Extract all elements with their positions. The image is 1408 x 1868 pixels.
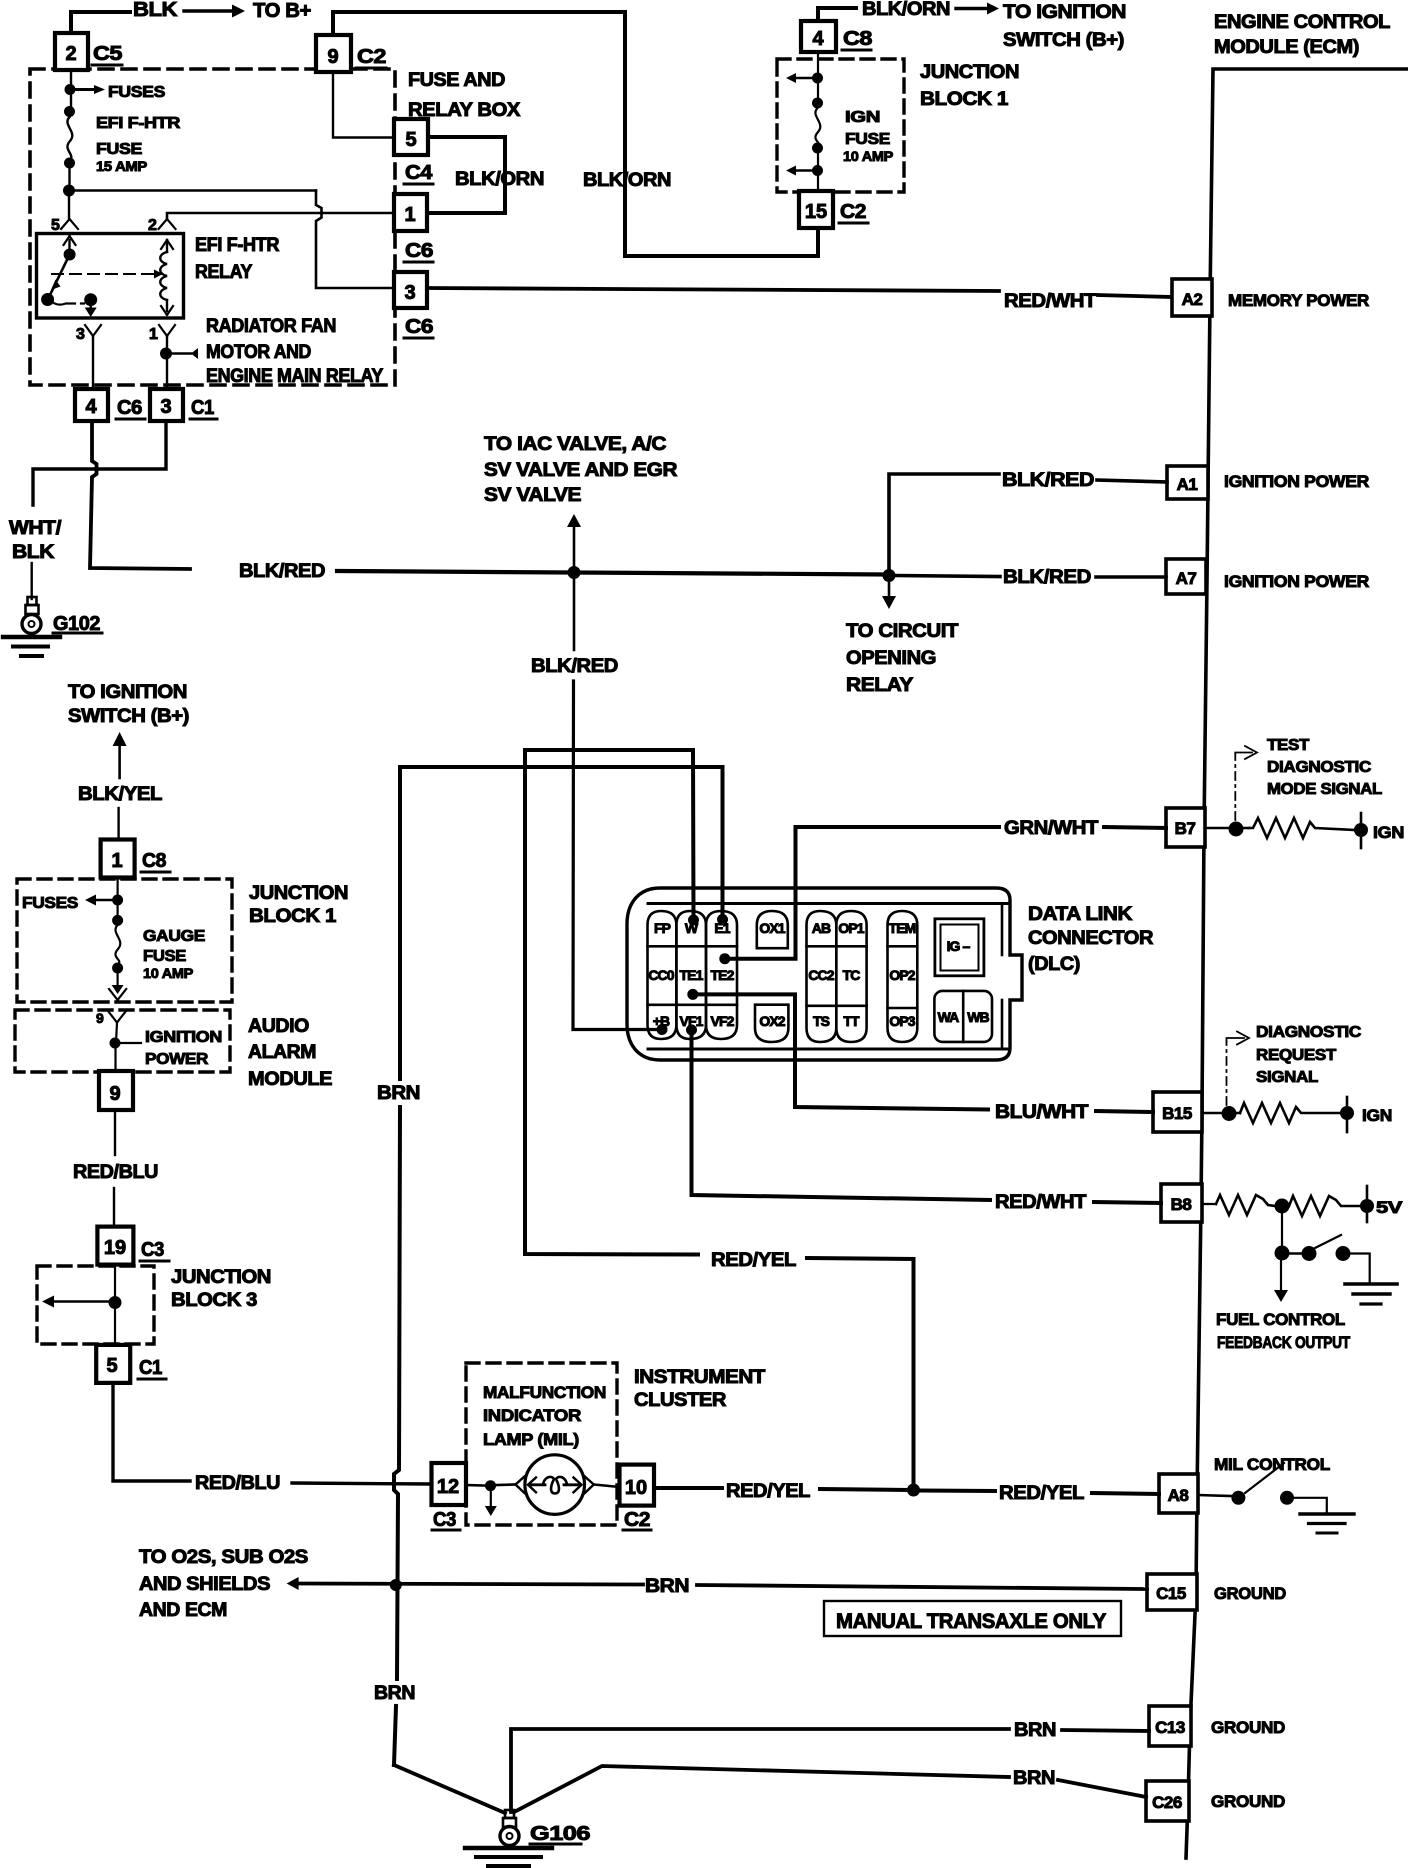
label BLU/WHT — [995, 1102, 1089, 1123]
wire BLK/RED main run — [337, 571, 886, 575]
svg-text:OP1: OP1 — [838, 920, 864, 936]
label BLK/RED left — [239, 561, 325, 582]
wire RED/BLU audio module to C3 pin 19 — [114, 1110, 115, 1227]
SECTION: mid-left ground and ignition — [15, 434, 1167, 1494]
svg-text:MANUAL TRANSAXLE ONLY: MANUAL TRANSAXLE ONLY — [836, 1610, 1106, 1633]
label TO IGNITION SWITCH (B+) left — [68, 682, 189, 727]
svg-text:FUEL CONTROL: FUEL CONTROL — [1216, 1310, 1345, 1329]
instrument cluster dashed box — [466, 1363, 617, 1525]
svg-text:FP: FP — [654, 920, 671, 936]
label TEST DIAGNOSTIC MODE SIGNAL — [1267, 737, 1383, 798]
svg-text:BLK/ORN: BLK/ORN — [862, 0, 950, 20]
svg-text:IGNITION: IGNITION — [145, 1029, 222, 1046]
node B15 junction — [1202, 1106, 1240, 1121]
label FUSE AND RELAY BOX — [408, 70, 521, 121]
wire DLC E1 to BRN ground (vertical x400) — [394, 767, 723, 1765]
DLC WA WB block — [934, 991, 992, 1042]
switch blade feedback — [1313, 1235, 1341, 1249]
SECTION: top-right junction block 1 — [316, 0, 1172, 338]
svg-text:JUNCTION: JUNCTION — [920, 62, 1019, 83]
audio alarm module dashed box — [15, 1010, 230, 1072]
label C5 — [92, 43, 122, 65]
svg-text:MOTOR AND: MOTOR AND — [206, 342, 311, 363]
svg-text:BLK: BLK — [133, 0, 178, 21]
label ENGINE CONTROL MODULE (ECM) — [1214, 12, 1391, 58]
svg-text:LAMP (MIL): LAMP (MIL) — [483, 1430, 579, 1449]
wire BRN G106 to C13 — [511, 1729, 1149, 1812]
svg-text:BLU/WHT: BLU/WHT — [995, 1102, 1089, 1123]
wire from pin 2 into fuse — [70, 70, 72, 111]
MIL control switch — [1198, 1463, 1327, 1513]
svg-text:1: 1 — [404, 204, 415, 226]
wire DLC TE2 to GRN/WHT B7 — [725, 827, 1166, 959]
ECM pin A1 box — [1167, 466, 1208, 499]
svg-text:MEMORY POWER: MEMORY POWER — [1228, 291, 1369, 310]
DLC pin labels CC0 TE1 TE2 — [648, 967, 734, 983]
svg-text:FUSE: FUSE — [845, 131, 891, 148]
wire BRN G106 to C26 — [514, 1766, 1146, 1812]
ECM pin A8 box — [1159, 1474, 1198, 1513]
ECM pin A7 box — [1166, 559, 1206, 594]
node TE2 pin — [719, 953, 730, 964]
svg-text:TO O2S, SUB O2S: TO O2S, SUB O2S — [139, 1547, 308, 1568]
node BLK/RED to IAC junction — [568, 566, 581, 579]
svg-text:BLK: BLK — [12, 542, 55, 563]
svg-text:C8: C8 — [843, 28, 872, 50]
label JUNCTION BLOCK 1 left — [249, 883, 348, 927]
svg-text:ENGINE CONTROL: ENGINE CONTROL — [1214, 12, 1391, 33]
arrow to ignition switch — [956, 3, 999, 15]
ground at MIL control — [1300, 1514, 1354, 1533]
svg-text:C5: C5 — [93, 43, 122, 65]
connector C6 pin 1 box — [394, 194, 427, 231]
MIL lamp — [516, 1455, 594, 1515]
svg-text:SV VALVE AND EGR: SV VALVE AND EGR — [484, 460, 678, 481]
relay pin 1 — [149, 325, 175, 343]
svg-text:AB: AB — [812, 920, 831, 936]
connector C4 pin 5 box — [394, 119, 428, 155]
svg-text:3: 3 — [76, 326, 85, 343]
svg-text:9: 9 — [96, 1010, 104, 1026]
label G102 — [53, 613, 102, 635]
svg-text:RELAY: RELAY — [846, 675, 914, 696]
svg-text:TO IAC VALVE, A/C: TO IAC VALVE, A/C — [484, 434, 667, 455]
label G106 — [530, 1823, 590, 1845]
connector C2 pin 9 box — [316, 35, 351, 72]
label BRN C26 wire — [1013, 1768, 1055, 1789]
label DATA LINK CONNECTOR (DLC) — [1028, 904, 1154, 975]
junction block 3 internal node — [42, 1265, 122, 1345]
svg-text:TO IGNITION: TO IGNITION — [68, 682, 187, 703]
wire relay pin 3 to C6 pin 4 — [92, 336, 94, 389]
svg-text:TO CIRCUIT: TO CIRCUIT — [846, 621, 959, 642]
relay output arrow to pin 3 — [85, 301, 97, 317]
gauge fuse 10A chain — [85, 877, 126, 1000]
DLC shell outline — [627, 888, 1022, 1060]
SECTION: ECM right column — [1146, 12, 1408, 1858]
svg-text:15 AMP: 15 AMP — [96, 158, 147, 174]
svg-text:12: 12 — [437, 1476, 459, 1498]
connector C6 pin 4 box — [75, 389, 108, 421]
ECM pin C15 box — [1147, 1574, 1197, 1610]
label TO IGNITION SWITCH (B+) — [1003, 2, 1126, 51]
node MIL junction — [485, 1480, 496, 1491]
node RED/YEL junction — [907, 1484, 920, 1497]
label IGN FUSE 10 AMP — [843, 109, 893, 164]
svg-text:TEM: TEM — [889, 920, 916, 936]
label RED/YEL right — [999, 1483, 1085, 1504]
relay switch blade — [41, 255, 70, 307]
svg-text:B7: B7 — [1175, 819, 1196, 838]
wire node to lamp — [496, 1483, 515, 1486]
node fuse top junction — [65, 84, 76, 95]
connector C5 pin 2 box — [55, 33, 88, 70]
svg-text:POWER: POWER — [145, 1051, 209, 1068]
label RED/YEL W wire — [711, 1250, 797, 1271]
svg-text:OP3: OP3 — [889, 1013, 915, 1029]
wire DLC TE1 to BLU/WHT B15 — [693, 994, 1153, 1112]
svg-text:A8: A8 — [1168, 1486, 1189, 1505]
label TO O2S SUB O2S AND SHIELDS AND ECM — [139, 1547, 308, 1621]
junction block 1 dashed box (left) — [17, 879, 232, 1002]
label WHT/BLK — [9, 518, 62, 563]
svg-text:BRN: BRN — [645, 1576, 689, 1597]
svg-text:AND ECM: AND ECM — [139, 1600, 227, 1621]
svg-text:RED/WHT: RED/WHT — [995, 1192, 1087, 1213]
label IGNITION POWER — [145, 1029, 222, 1068]
label MIL CONTROL — [1214, 1455, 1330, 1474]
label TO IAC VALVE A/C SV VALVE AND EGR SV VALVE — [484, 434, 678, 506]
svg-text:RED/YEL: RED/YEL — [711, 1250, 797, 1271]
svg-text:BLK/ORN: BLK/ORN — [583, 170, 671, 191]
wire C2 pin 9 to C4 pin 5 — [333, 72, 394, 138]
svg-text:19: 19 — [104, 1237, 126, 1259]
DLC pin OX2 — [755, 1005, 788, 1042]
DLC pin labels TS TT — [813, 1013, 860, 1029]
wire relay pin 2 to C6 pin 1 — [167, 213, 394, 218]
svg-text:GROUND: GROUND — [1214, 1584, 1286, 1603]
wire lamp to pin 10 — [594, 1485, 620, 1488]
SECTION: DLC — [374, 750, 1166, 1765]
svg-text:INDICATOR: INDICATOR — [483, 1406, 581, 1425]
svg-text:B15: B15 — [1162, 1104, 1192, 1123]
svg-text:AND SHIELDS: AND SHIELDS — [139, 1574, 270, 1595]
svg-text:C2: C2 — [357, 46, 386, 68]
svg-text:ENGINE MAIN RELAY: ENGINE MAIN RELAY — [206, 366, 384, 387]
wire 12 to lamp — [466, 1484, 484, 1487]
label JUNCTION BLOCK 1 — [920, 62, 1019, 110]
svg-text:GAUGE: GAUGE — [143, 928, 206, 945]
connector C3 pin 12 box — [432, 1463, 467, 1505]
label BLK/ORN — [455, 169, 544, 190]
resistor at B15 — [1240, 1103, 1341, 1123]
label BRN C15 wire — [645, 1576, 689, 1597]
relay coil — [160, 240, 173, 315]
svg-text:10: 10 — [625, 1477, 647, 1499]
wire C1 pin 3 to WHT/BLK ground — [33, 421, 166, 505]
junction block 1 dashed box (top right) — [777, 59, 904, 192]
svg-text:4: 4 — [85, 396, 97, 418]
DLC left pin block FP/W/E1 CC0/TE1/TE2 +B/VF1/VF2 — [648, 911, 738, 1039]
resistor at B7 — [1249, 818, 1355, 838]
arrow down inside MIL box — [485, 1491, 497, 1516]
label IGN B7 — [1373, 823, 1404, 842]
DLC pin labels FP W E1 — [654, 920, 731, 936]
wire BRN O2S to C15 — [287, 1577, 1147, 1590]
connector C1 pin 3 box — [150, 389, 183, 421]
svg-text:RED/BLU: RED/BLU — [73, 1162, 158, 1183]
svg-text:CONNECTOR: CONNECTOR — [1028, 928, 1154, 949]
svg-text:CLUSTER: CLUSTER — [634, 1390, 727, 1411]
wire BLK/RED down to DLC +B — [573, 579, 662, 1030]
relay contact link (dashed) — [52, 293, 97, 306]
svg-text:FUSE: FUSE — [143, 948, 187, 965]
DLC pin labels AB OP1 — [812, 920, 865, 936]
svg-text:C3: C3 — [141, 1239, 164, 1261]
label BRN C13 wire — [1014, 1720, 1056, 1741]
svg-text:MODE SIGNAL: MODE SIGNAL — [1267, 781, 1383, 798]
svg-text:C2: C2 — [624, 1509, 650, 1531]
label C3 pin12 — [432, 1509, 460, 1531]
svg-text:C6: C6 — [405, 240, 433, 262]
label BLK/RED vertical — [531, 656, 618, 677]
label BLK/RED A1 — [1002, 470, 1094, 491]
resistor 2 at B8 — [1289, 1196, 1360, 1216]
arrow fuel control feedback output — [1274, 1260, 1288, 1302]
label C6 — [404, 240, 433, 262]
label TO CIRCUIT OPENING RELAY — [846, 621, 959, 696]
label GRN/WHT — [1004, 818, 1099, 839]
svg-text:TE1: TE1 — [680, 967, 704, 983]
ECM pin C26 box — [1146, 1781, 1189, 1821]
label EFI F-HTR FUSE 15 AMP — [96, 115, 181, 174]
node B8 divider junction — [1275, 1199, 1290, 1214]
svg-text:IG –: IG – — [947, 938, 971, 954]
svg-text:BLK/RED: BLK/RED — [239, 561, 325, 582]
relay pin 5 — [51, 217, 78, 234]
svg-text:AUDIO: AUDIO — [248, 1016, 309, 1037]
svg-text:RED/BLU: RED/BLU — [195, 1473, 280, 1494]
label RED/WHT — [1004, 291, 1097, 312]
svg-text:BRN: BRN — [377, 1083, 420, 1104]
svg-text:TEST: TEST — [1267, 737, 1310, 754]
DLC pin labels WA WB — [938, 1009, 990, 1025]
ground G106 — [465, 1810, 552, 1866]
label C4 — [404, 162, 433, 184]
arrow to FUSES — [76, 85, 105, 94]
label MALFUNCTION INDICATOR LAMP (MIL) — [483, 1383, 606, 1449]
svg-text:C8: C8 — [142, 850, 166, 872]
label FUSES — [108, 84, 166, 101]
label GROUND C15 — [1214, 1584, 1286, 1603]
svg-text:4: 4 — [812, 28, 824, 50]
wire BLK/RED to A7 — [896, 576, 1166, 578]
svg-text:5: 5 — [405, 129, 416, 151]
svg-text:CC2: CC2 — [808, 967, 834, 983]
svg-text:REQUEST: REQUEST — [1256, 1047, 1337, 1064]
IGN fuse 10A inside junction block 1 — [786, 52, 823, 191]
svg-text:BLK/RED: BLK/RED — [1002, 470, 1094, 491]
label FUSES left — [22, 895, 79, 912]
IGN terminal at B7 — [1354, 813, 1368, 848]
wire BLK/ORN junction block 1 to ignition switch — [818, 8, 856, 21]
label INSTRUMENT CLUSTER — [634, 1367, 766, 1411]
svg-text:SV VALVE: SV VALVE — [484, 485, 581, 506]
resistor 1 at B8 — [1202, 1195, 1275, 1215]
DLC pin OX1 — [757, 911, 788, 948]
svg-text:DIAGNOSTIC: DIAGNOSTIC — [1256, 1024, 1362, 1041]
svg-text:MODULE: MODULE — [248, 1069, 332, 1090]
svg-text:INSTRUMENT: INSTRUMENT — [634, 1367, 766, 1388]
svg-text:DATA LINK: DATA LINK — [1028, 904, 1133, 925]
IGN terminal at B15 — [1340, 1097, 1354, 1132]
svg-text:9: 9 — [327, 46, 338, 68]
svg-text:IGN: IGN — [845, 109, 880, 126]
label DIAGNOSTIC REQUEST SIGNAL — [1256, 1024, 1362, 1086]
svg-text:10 AMP: 10 AMP — [843, 148, 893, 164]
svg-text:2: 2 — [65, 43, 76, 65]
svg-text:9: 9 — [109, 1083, 120, 1105]
svg-text:TS: TS — [813, 1013, 830, 1029]
label RADIATOR FAN MOTOR AND ENGINE MAIN RELAY — [206, 316, 384, 387]
label C2 pin10 — [623, 1509, 651, 1531]
wire BLK from C5 pin 2 to B+ — [71, 12, 130, 33]
ground at feedback switch — [1345, 1284, 1397, 1304]
svg-text:WA: WA — [938, 1009, 960, 1025]
node feedback switch left — [1275, 1246, 1304, 1261]
label RED/WHT B8 — [995, 1192, 1087, 1213]
relay actuating line (dashed) — [52, 270, 163, 279]
node feedback switch right — [1336, 1246, 1351, 1261]
svg-text:WHT/: WHT/ — [9, 518, 62, 539]
svg-text:B8: B8 — [1171, 1195, 1192, 1214]
svg-text:IGN: IGN — [1362, 1106, 1392, 1125]
ECM pin B15 box — [1153, 1092, 1202, 1132]
node E1 pin — [717, 914, 728, 925]
svg-text:BLOCK 1: BLOCK 1 — [249, 906, 337, 927]
connector pin 9 box audio module — [99, 1071, 133, 1110]
ECM pin B7 box — [1166, 808, 1205, 847]
label JUNCTION BLOCK 3 — [171, 1267, 271, 1311]
label C8 — [842, 28, 872, 50]
svg-text:A2: A2 — [1182, 290, 1203, 309]
svg-text:BLK/RED: BLK/RED — [531, 656, 618, 677]
svg-text:BRN: BRN — [374, 1683, 415, 1704]
label MEMORY POWER — [1228, 291, 1369, 310]
wire RED/BLU C1 pin 5 to instrument cluster — [113, 1383, 432, 1484]
svg-text:TO B+: TO B+ — [253, 0, 311, 22]
label FUEL CONTROL FEEDBACK OUTPUT — [1216, 1310, 1351, 1352]
label RED/YEL mid — [726, 1481, 811, 1502]
ground G102 — [3, 597, 60, 656]
DLC pin column TEM/OP2/OP3 — [888, 911, 918, 1042]
label IGNITION POWER A1 — [1224, 472, 1369, 491]
label RED/BLU — [73, 1162, 158, 1183]
svg-text:C15: C15 — [1156, 1584, 1186, 1603]
label BLK/RED A7 — [1003, 567, 1091, 588]
node VF1 pin — [686, 1024, 697, 1035]
svg-text:BLOCK 1: BLOCK 1 — [920, 89, 1009, 110]
label C3 pin19 — [140, 1239, 169, 1261]
svg-text:RADIATOR FAN: RADIATOR FAN — [206, 316, 336, 337]
svg-text:CC0: CC0 — [648, 967, 674, 983]
svg-text:OX1: OX1 — [759, 920, 785, 936]
DLC middle pin block AB/OP1 CC2/TC TS/TT — [807, 911, 867, 1042]
svg-text:C13: C13 — [1155, 1718, 1185, 1737]
ECM pin B8 box — [1161, 1184, 1202, 1222]
label GROUND C13 — [1211, 1718, 1285, 1737]
node fuse bottom junction — [63, 185, 75, 197]
svg-text:2: 2 — [148, 217, 157, 234]
connector C8 pin 1 box — [101, 840, 135, 878]
connector C3 pin 19 box — [97, 1227, 133, 1265]
wire fuse to C6 pin 3 (with hop over pin2 wire) — [75, 191, 394, 289]
connector C6 pin 3 box — [394, 272, 427, 308]
fuse and relay box (dashed enclosure) — [30, 69, 395, 385]
label 5V — [1376, 1198, 1403, 1217]
svg-text:VF2: VF2 — [711, 1013, 735, 1029]
label C2 — [356, 46, 386, 68]
label BLK/ORN top — [862, 0, 950, 20]
DLC pin labels TEM OP2 OP3 — [889, 920, 916, 1029]
svg-text:EFI F-HTR: EFI F-HTR — [96, 115, 181, 132]
node BLK/RED A7 junction — [883, 569, 896, 582]
svg-text:OPENING: OPENING — [846, 648, 936, 669]
label C1 — [190, 397, 217, 419]
label BLK — [133, 0, 178, 21]
svg-text:JUNCTION: JUNCTION — [249, 883, 348, 904]
arrow to ignition switch left — [113, 732, 127, 778]
DLC shell inner lips — [648, 904, 1008, 1050]
svg-text:C3: C3 — [433, 1509, 456, 1531]
svg-text:RED/YEL: RED/YEL — [726, 1481, 811, 1502]
wire relay pin 1 to C1 pin 3 — [166, 336, 168, 389]
node feedback switch pivot — [1302, 1246, 1317, 1261]
node +B pin — [657, 1024, 668, 1035]
label C8 pin1 — [141, 850, 170, 872]
svg-text:SIGNAL: SIGNAL — [1256, 1069, 1319, 1086]
wire WHT/BLK to G102 — [31, 563, 33, 599]
svg-text:MODULE (ECM): MODULE (ECM) — [1214, 37, 1359, 58]
svg-text:C1: C1 — [191, 397, 214, 419]
svg-text:FUSE AND: FUSE AND — [408, 70, 505, 91]
svg-text:BLK/RED: BLK/RED — [1003, 567, 1091, 588]
svg-text:GROUND: GROUND — [1211, 1792, 1285, 1811]
svg-text:C6: C6 — [405, 316, 433, 338]
node B7 junction — [1205, 822, 1249, 837]
svg-text:A7: A7 — [1176, 569, 1197, 588]
svg-text:BRN: BRN — [1014, 1720, 1056, 1741]
svg-text:OP2: OP2 — [889, 967, 915, 983]
5V terminal at B8 — [1360, 1186, 1374, 1222]
svg-text:TO IGNITION: TO IGNITION — [1003, 2, 1126, 23]
wire RED/WHT C6 pin 3 to ECM A2 — [427, 288, 1172, 297]
arrow to circuit opening relay — [882, 582, 896, 609]
svg-text:G106: G106 — [530, 1823, 590, 1845]
svg-text:C4: C4 — [405, 162, 433, 184]
node W pin — [688, 915, 699, 926]
svg-text:5: 5 — [106, 1355, 117, 1377]
svg-text:ALARM: ALARM — [248, 1042, 316, 1063]
svg-text:FUSE: FUSE — [96, 141, 143, 158]
SECTION: top-left fuse and relay box — [3, 0, 395, 656]
arrow to B+ — [184, 5, 245, 18]
node TE1 pin — [687, 989, 698, 1000]
svg-text:FEEDBACK OUTPUT: FEEDBACK OUTPUT — [1217, 1333, 1351, 1352]
DLC pin labels +B VF1 VF2 — [653, 1013, 735, 1029]
svg-text:SWITCH (B+): SWITCH (B+) — [1003, 30, 1124, 51]
svg-text:BLK/YEL: BLK/YEL — [78, 784, 163, 805]
